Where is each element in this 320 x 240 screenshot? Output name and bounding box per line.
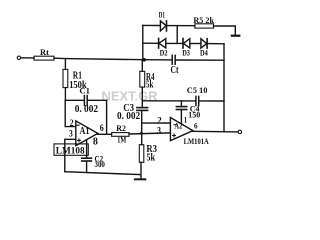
- svg-text:0. 002: 0. 002: [117, 111, 140, 122]
- svg-text:150: 150: [188, 110, 200, 120]
- svg-text:D2: D2: [160, 47, 168, 57]
- wire C3 stub: [141, 101, 143, 107]
- svg-text:A1: A1: [80, 126, 90, 137]
- wire R3 to ground: [140, 162, 142, 179]
- wire D1 row: [143, 24, 161, 26]
- diode D1: [160, 21, 166, 31]
- resistor R4: [140, 71, 145, 87]
- wire A1 pin2: [65, 100, 76, 126]
- diode D3: [182, 39, 184, 49]
- output terminal: [238, 130, 241, 133]
- svg-text:R5 2k: R5 2k: [193, 15, 214, 25]
- wire C2 to bottom rail: [86, 161, 88, 172]
- svg-text:1: 1: [184, 115, 187, 125]
- wire D3 to D4: [190, 43, 201, 45]
- wire C4 to A2 pin1: [180, 110, 182, 124]
- wire A1 pin3: [65, 139, 76, 171]
- wire D2 row left: [143, 42, 159, 44]
- svg-text:1M: 1M: [117, 134, 126, 144]
- diode D2: [158, 39, 160, 49]
- input terminal: [17, 56, 20, 59]
- wire vertical D1 row to D2 row: [176, 26, 178, 44]
- svg-text:3: 3: [157, 125, 161, 135]
- wire mid row to C5: [142, 100, 195, 102]
- capacitor C2: [82, 157, 92, 159]
- diode D4: [201, 39, 207, 48]
- capacitor C3: [137, 107, 148, 109]
- svg-text:5k: 5k: [146, 153, 155, 164]
- wire vertical node B (C3 to R3): [141, 111, 143, 145]
- wire C5 to right rail: [199, 100, 224, 102]
- resistor Rt: [34, 56, 54, 60]
- wire R1 to C1 node: [64, 88, 66, 101]
- junction node A dot: [142, 58, 146, 62]
- ground (R5): [232, 35, 240, 37]
- svg-text:D1: D1: [159, 9, 165, 19]
- capacitor C5: [195, 96, 197, 105]
- svg-text:300: 300: [95, 159, 105, 169]
- svg-text:C5 10: C5 10: [187, 85, 208, 95]
- svg-text:2: 2: [157, 115, 162, 125]
- capacitor C1: [83, 96, 85, 106]
- minus sign A2: [174, 124, 177, 126]
- svg-text:Rt: Rt: [40, 47, 49, 57]
- op-amp A2: [170, 118, 193, 141]
- wire D-row left vertical: [142, 25, 144, 59]
- wire C4 stub top: [180, 101, 182, 106]
- svg-text:LM101A: LM101A: [184, 136, 210, 146]
- wire A2 output: [193, 130, 238, 133]
- wire Rt to node A (main rail left): [54, 58, 143, 60]
- wire bottom rail: [65, 172, 141, 175]
- capacitor C4: [176, 106, 186, 108]
- wire R4 drop: [141, 60, 143, 72]
- svg-text:0. 002: 0. 002: [75, 104, 98, 115]
- wire input to Rt: [21, 57, 34, 59]
- resistor R3: [139, 145, 144, 163]
- wire A2 pin2 row: [142, 122, 171, 124]
- svg-text:LM108: LM108: [56, 147, 85, 157]
- wire R5 to ground: [214, 26, 236, 35]
- junction node B dot: [140, 132, 143, 135]
- svg-text:D3: D3: [182, 47, 190, 57]
- wire R4 to mid node: [141, 87, 143, 101]
- wire R2 to node B / A2 pin3: [129, 133, 170, 134]
- svg-text:6: 6: [194, 121, 198, 131]
- svg-text:Ct: Ct: [171, 65, 179, 76]
- ground (R3): [135, 178, 145, 180]
- wire D1 to R5: [167, 25, 195, 27]
- svg-text:R2: R2: [116, 123, 126, 133]
- svg-text:8: 8: [93, 136, 98, 147]
- svg-text:6: 6: [100, 123, 104, 133]
- wire C1 row right: [87, 99, 106, 101]
- wire C1 row left: [65, 99, 84, 101]
- plus sign A2: [172, 134, 176, 138]
- wire Ct to right rail: [175, 59, 224, 61]
- plus sign A1: [77, 138, 81, 142]
- svg-text:C1: C1: [79, 86, 90, 96]
- minus sign A1: [77, 124, 80, 126]
- wire feedback vertical to A1 output: [106, 100, 108, 134]
- svg-text:A2: A2: [174, 121, 182, 131]
- svg-text:5k: 5k: [146, 80, 154, 91]
- wire A1 pin8 stub: [86, 140, 88, 158]
- LM108 label box: [54, 144, 88, 155]
- wire D4 to right rail: [207, 43, 224, 45]
- resistor R5: [195, 24, 214, 28]
- svg-text:3: 3: [69, 128, 73, 138]
- wire main rail to Ct: [143, 59, 172, 61]
- wire A1 output to R2: [98, 133, 112, 135]
- resistor R2: [112, 133, 129, 137]
- capacitor Ct: [171, 55, 173, 64]
- svg-text:D4: D4: [200, 47, 208, 57]
- svg-text:2: 2: [70, 118, 74, 128]
- wire R1 drop from rail: [64, 59, 66, 70]
- wire D2 to D3: [166, 42, 183, 44]
- op-amp A1: [76, 121, 98, 146]
- wire right vertical rail: [223, 44, 225, 132]
- resistor R1: [63, 69, 68, 87]
